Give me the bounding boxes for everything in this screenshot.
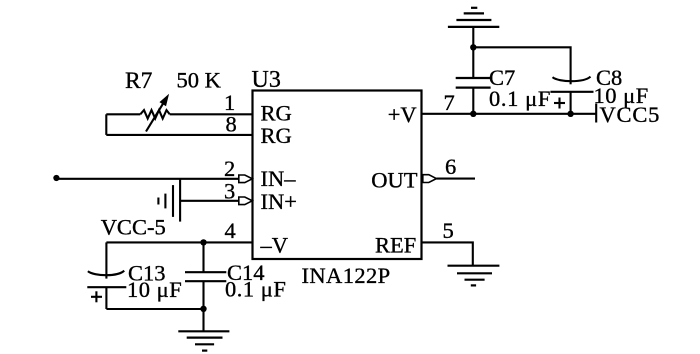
svg-text:INA122P: INA122P xyxy=(302,263,391,288)
node input terminal dot xyxy=(53,175,59,181)
capacitor C14 bottom plate xyxy=(185,280,226,282)
node junction dot bottom rail xyxy=(200,306,206,312)
svg-text:0.1 μF: 0.1 μF xyxy=(225,277,286,302)
svg-text:10 μF: 10 μF xyxy=(594,83,649,108)
pin 6 output arrow xyxy=(423,175,437,183)
wire C14 top stem xyxy=(202,242,204,272)
wire ground stem bottom xyxy=(202,309,204,331)
svg-text:RG: RG xyxy=(261,123,292,148)
node junction dot C8 stem xyxy=(567,111,573,117)
wire pin4 rail xyxy=(106,241,252,243)
wire C14 bottom stem xyxy=(202,281,204,309)
capacitor C13 curved plate xyxy=(88,271,124,276)
svg-text:U3: U3 xyxy=(252,67,281,93)
wire C7 stem lower xyxy=(472,88,474,114)
ground at REF xyxy=(448,266,500,286)
capacitor C13 straight plate xyxy=(87,286,126,288)
svg-text:R7: R7 xyxy=(125,68,153,94)
capacitor C8 straight plate xyxy=(550,91,593,93)
wire pin6 output xyxy=(436,178,475,180)
svg-text:–V: –V xyxy=(260,233,289,258)
svg-text:4: 4 xyxy=(225,218,236,243)
resistor R7 wiper arrow xyxy=(146,95,168,131)
svg-text:IN–: IN– xyxy=(261,166,297,191)
svg-text:5: 5 xyxy=(443,218,454,243)
svg-text:REF: REF xyxy=(375,233,416,258)
pin 3 input arrow xyxy=(239,197,253,205)
resistor R7 zigzag xyxy=(140,110,169,118)
wire bottom rail xyxy=(106,308,203,310)
node junction dot C7 stem xyxy=(470,111,476,117)
svg-text:+V: +V xyxy=(388,102,417,127)
wire loop left vertical xyxy=(105,114,107,135)
wire pin8 bottom segment xyxy=(106,134,252,136)
polarity + of C8 xyxy=(554,98,565,109)
svg-text:0.1 μF: 0.1 μF xyxy=(489,86,551,111)
svg-text:IN+: IN+ xyxy=(261,189,297,214)
wire C7 stem upper xyxy=(472,27,474,78)
capacitor C7 top plate xyxy=(456,77,491,79)
node junction dot branch xyxy=(470,44,476,50)
capacitor C8 curved plate xyxy=(553,77,591,82)
pin 2 input arrow xyxy=(239,175,253,183)
svg-text:7: 7 xyxy=(444,90,455,115)
wire vertical ground stem at IN+ xyxy=(179,179,181,222)
wire pin5 REF xyxy=(422,242,473,265)
wire C8 stem lower xyxy=(570,92,572,114)
wire C13 top stem xyxy=(105,242,107,278)
wire pin1 right segment to U3 xyxy=(170,113,253,115)
capacitor C7 bottom plate xyxy=(456,86,491,88)
ground top (inverted) xyxy=(448,8,499,27)
wire pin1 left segment xyxy=(106,113,140,115)
wire pin3 to ground xyxy=(180,200,239,202)
wire pin2 input xyxy=(56,178,239,180)
svg-text:10 μF: 10 μF xyxy=(127,277,182,302)
svg-text:6: 6 xyxy=(445,154,456,179)
svg-text:OUT: OUT xyxy=(371,167,417,192)
svg-text:VCC-5: VCC-5 xyxy=(101,215,166,240)
node junction dot C14 top xyxy=(200,239,206,245)
op-amp U3 body xyxy=(253,91,422,260)
terminal bar VCC5 xyxy=(595,104,597,123)
svg-text:2: 2 xyxy=(224,156,235,181)
ground (rotated left) at IN+ xyxy=(158,185,173,217)
wire C8 stem through arc xyxy=(570,77,572,85)
wire pin7 rail to VCC5 xyxy=(422,113,596,115)
wire branch to C8 xyxy=(473,47,570,76)
wire C13 bottom stem xyxy=(105,287,107,309)
ground bottom center xyxy=(178,331,229,350)
polarity + of C13 xyxy=(91,291,102,302)
capacitor C14 top plate xyxy=(185,271,226,273)
svg-text:50 K: 50 K xyxy=(177,68,222,93)
